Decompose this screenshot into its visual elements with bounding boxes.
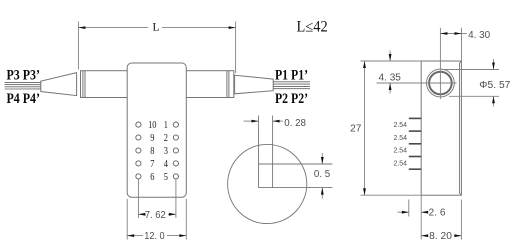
svg-text:5: 5 — [164, 172, 168, 183]
svg-text:4. 30: 4. 30 — [468, 30, 490, 41]
pin circles left column — [136, 122, 141, 179]
svg-text:2.54: 2.54 — [394, 135, 408, 142]
detail pin section rectangle with extended edges — [259, 116, 333, 188]
svg-text:8. 20: 8. 20 — [429, 231, 452, 242]
dimension 12.0 — [127, 199, 186, 240]
cylinder left end ring — [82, 71, 84, 98]
dimension 8.20 — [421, 200, 461, 240]
svg-text:7. 62: 7. 62 — [145, 210, 166, 221]
svg-text:L: L — [153, 22, 160, 34]
cylinder right end ring — [226, 71, 228, 98]
pin circles right column — [173, 122, 178, 179]
left taper boot — [41, 73, 77, 96]
svg-text:0. 28: 0. 28 — [284, 118, 306, 129]
svg-text:P3 P3’: P3 P3’ — [7, 68, 41, 84]
dimension dia 5.57 — [442, 59, 500, 107]
svg-text:4. 35: 4. 35 — [379, 72, 402, 83]
dimension 2.6 — [398, 195, 426, 239]
central block — [127, 63, 186, 197]
svg-text:8: 8 — [150, 146, 154, 157]
svg-text:9: 9 — [150, 133, 154, 144]
svg-text:L≤42: L≤42 — [297, 19, 328, 36]
svg-text:12. 0: 12. 0 — [144, 231, 165, 242]
pin numbers right 1..5 — [164, 120, 169, 183]
svg-text:10: 10 — [148, 120, 156, 131]
svg-text:Φ5. 57: Φ5. 57 — [479, 80, 511, 91]
svg-text:1: 1 — [164, 120, 168, 131]
right fibers P1/P2 — [273, 82, 310, 89]
svg-text:3: 3 — [164, 146, 168, 157]
crosshair — [377, 28, 457, 99]
svg-text:2.54: 2.54 — [394, 122, 408, 129]
dimension 27 — [361, 61, 422, 195]
svg-text:2.54: 2.54 — [394, 160, 408, 167]
dimension 7.62 — [138, 179, 176, 218]
cylinder body — [81, 71, 234, 98]
left fibers P3/P4 — [5, 82, 41, 89]
dimension 4.30 — [440, 28, 466, 61]
pin numbers left 10..6 — [148, 120, 156, 183]
svg-text:P1 P1’: P1 P1’ — [275, 68, 308, 84]
detail circle — [228, 144, 307, 223]
labels 2.54 — [394, 122, 408, 167]
dimension L — [78, 22, 235, 74]
svg-text:P4 P4’: P4 P4’ — [7, 91, 41, 107]
svg-text:6: 6 — [150, 172, 154, 183]
right taper boot — [235, 75, 274, 94]
side view pins — [409, 118, 421, 169]
svg-text:P2 P2’: P2 P2’ — [275, 91, 308, 107]
svg-text:2.54: 2.54 — [394, 148, 408, 155]
dimension 0.28 — [244, 120, 284, 122]
side view body — [421, 61, 461, 195]
svg-text:27: 27 — [350, 124, 362, 135]
svg-text:4: 4 — [164, 159, 169, 170]
svg-text:7: 7 — [150, 159, 154, 170]
svg-text:0. 5: 0. 5 — [314, 169, 331, 180]
side view ferrule circle — [427, 69, 455, 97]
svg-text:2: 2 — [164, 133, 168, 144]
svg-text:2. 6: 2. 6 — [429, 208, 446, 219]
dimension 4.35 — [389, 51, 391, 94]
side view inner plate line — [460, 62, 462, 195]
dimension 0.5 — [321, 153, 323, 199]
